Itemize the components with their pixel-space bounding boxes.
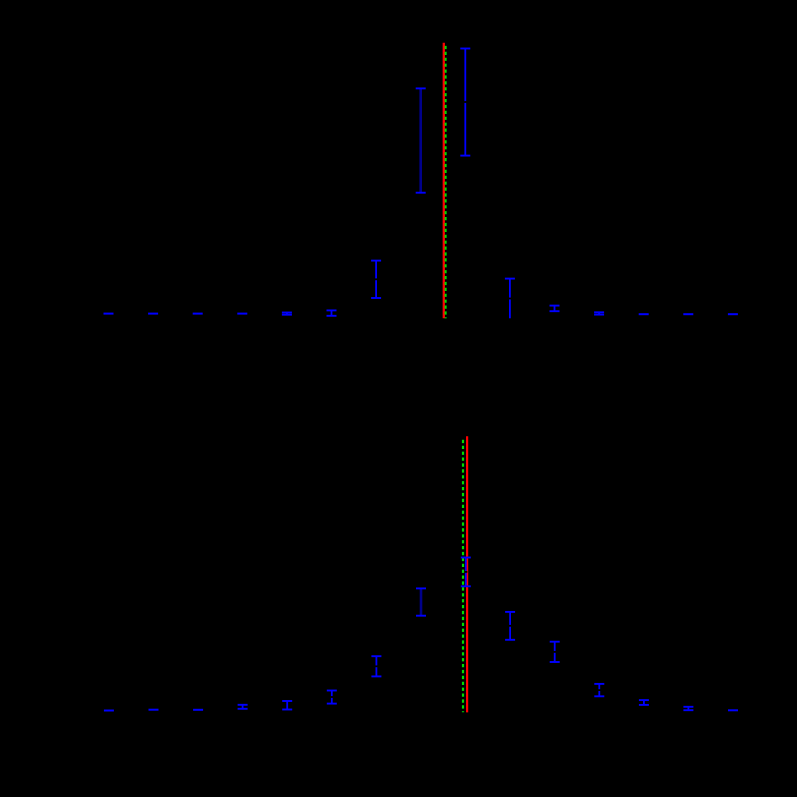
bottom panel reference green dashed line	[462, 440, 464, 712]
top panel data point 1 error bar	[104, 313, 114, 315]
bottom panel data point 13 error bar	[639, 700, 649, 705]
bottom panel data point 14 error bar	[683, 707, 693, 710]
bottom panel data point 3 error bar	[193, 709, 203, 711]
top panel data point 14 error bar	[683, 313, 693, 315]
top panel data point 13 error bar	[639, 313, 649, 315]
top panel data point 6 error bar	[327, 310, 337, 315]
top panel data point 7 error bar	[371, 261, 381, 298]
bottom panel data point 5 error bar	[282, 701, 292, 710]
bottom panel data point 15 error bar	[728, 709, 738, 711]
top panel data point 4 error bar	[237, 313, 247, 315]
bottom panel data point 8 error bar	[416, 588, 426, 615]
top panel data point 12 error bar	[594, 312, 604, 314]
top panel reference green dashed line	[445, 46, 447, 319]
bottom panel data point 10 error bar	[505, 612, 515, 640]
top panel data point 10 error bar	[505, 279, 515, 319]
bottom panel data point 2 error bar	[149, 709, 159, 711]
bottom panel data point 9 error bar	[461, 558, 471, 587]
bottom panel data point 4 error bar	[238, 705, 248, 709]
bottom panel data point 12 error bar	[594, 684, 604, 696]
top panel fitted-center red solid line	[443, 43, 445, 318]
top panel data point 11 error bar	[550, 306, 560, 312]
bottom panel data point 6 error bar	[327, 691, 337, 704]
top panel data point 2 error bar	[148, 313, 158, 315]
top panel data point 9 error bar	[460, 49, 470, 156]
bottom panel fitted-center red solid line	[466, 436, 468, 712]
top panel data point 8 error bar	[416, 88, 426, 192]
top panel data point 3 error bar	[193, 313, 203, 315]
top panel data point 5 error bar	[282, 313, 292, 315]
bottom panel data point 7 error bar	[371, 656, 381, 676]
top panel data point 15 error bar	[728, 313, 738, 315]
bottom panel data point 1 error bar	[104, 710, 114, 712]
bottom panel data point 11 error bar	[550, 642, 560, 662]
